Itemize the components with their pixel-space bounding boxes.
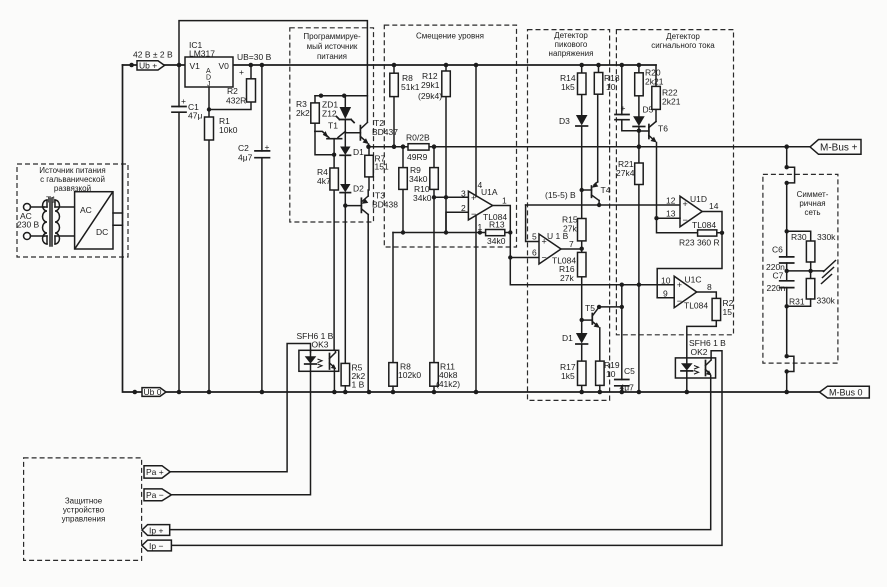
svg-text:1 В: 1 В bbox=[352, 380, 365, 390]
svg-text:TL084: TL084 bbox=[692, 220, 716, 230]
svg-text:Ip +: Ip + bbox=[149, 526, 163, 536]
svg-text:Программируе-: Программируе- bbox=[303, 32, 361, 41]
svg-text:+: + bbox=[542, 237, 547, 247]
svg-text:M-Bus 0: M-Bus 0 bbox=[829, 388, 863, 398]
svg-text:C2: C2 bbox=[238, 143, 249, 153]
svg-text:UB=30 В: UB=30 В bbox=[237, 52, 272, 62]
svg-text:устройство: устройство bbox=[63, 506, 105, 515]
svg-text:V0: V0 bbox=[219, 61, 230, 71]
svg-text:DC: DC bbox=[96, 227, 108, 237]
svg-text:10: 10 bbox=[606, 82, 616, 92]
svg-text:D1: D1 bbox=[353, 147, 364, 157]
svg-text:D1: D1 bbox=[562, 333, 573, 343]
svg-text:R0/2B: R0/2B bbox=[406, 133, 430, 143]
svg-text:T1: T1 bbox=[328, 121, 338, 131]
svg-text:Детектор: Детектор bbox=[666, 32, 700, 41]
svg-text:V1: V1 bbox=[190, 61, 201, 71]
svg-text:432R: 432R bbox=[226, 96, 246, 106]
svg-text:Pa −: Pa − bbox=[146, 490, 164, 500]
svg-text:T4: T4 bbox=[601, 185, 611, 195]
svg-text:U1D: U1D bbox=[690, 194, 707, 204]
svg-text:220n: 220n bbox=[767, 283, 786, 293]
svg-text:C7: C7 bbox=[773, 271, 784, 281]
svg-text:+: + bbox=[621, 103, 626, 113]
svg-text:4k7: 4k7 bbox=[317, 176, 331, 186]
svg-text:+: + bbox=[265, 142, 270, 152]
svg-text:42 В ± 2 В: 42 В ± 2 В bbox=[133, 50, 173, 60]
svg-text:102k0: 102k0 bbox=[398, 370, 421, 380]
svg-text:Защитное: Защитное bbox=[65, 497, 103, 506]
svg-text:Ub +: Ub + bbox=[139, 61, 157, 71]
svg-text:D2: D2 bbox=[353, 184, 364, 194]
svg-text:TL084: TL084 bbox=[684, 301, 708, 311]
svg-text:330k: 330k bbox=[817, 296, 836, 306]
svg-text:3: 3 bbox=[461, 189, 466, 199]
svg-text:R30: R30 bbox=[791, 232, 807, 242]
svg-text:−: − bbox=[677, 296, 682, 306]
svg-text:51k1: 51k1 bbox=[401, 82, 420, 92]
svg-text:C6: C6 bbox=[772, 245, 783, 255]
svg-text:1k5: 1k5 bbox=[561, 371, 575, 381]
svg-text:10k0: 10k0 bbox=[219, 125, 238, 135]
svg-text:R23 360 R: R23 360 R bbox=[679, 238, 720, 248]
svg-text:6: 6 bbox=[532, 248, 537, 258]
svg-text:R31: R31 bbox=[789, 297, 805, 307]
svg-text:+: + bbox=[677, 280, 682, 290]
svg-text:пикового: пикового bbox=[555, 40, 588, 49]
svg-text:12: 12 bbox=[666, 196, 676, 206]
svg-text:2k21: 2k21 bbox=[662, 97, 681, 107]
svg-text:C5: C5 bbox=[624, 366, 635, 376]
svg-text:5: 5 bbox=[532, 232, 537, 242]
svg-text:с гальванической: с гальванической bbox=[40, 175, 105, 184]
svg-text:LM317: LM317 bbox=[189, 49, 215, 59]
svg-text:9: 9 bbox=[663, 289, 668, 299]
svg-text:BD438: BD438 bbox=[372, 200, 398, 210]
svg-text:Ip −: Ip − bbox=[149, 541, 163, 551]
svg-text:2k21: 2k21 bbox=[645, 77, 664, 87]
svg-text:сеть: сеть bbox=[804, 208, 820, 217]
svg-text:сигнального тока: сигнального тока bbox=[651, 41, 715, 50]
svg-text:49R9: 49R9 bbox=[407, 152, 428, 162]
svg-text:ричная: ричная bbox=[799, 199, 825, 208]
svg-text:D3: D3 bbox=[559, 116, 570, 126]
svg-text:Смещение уровня: Смещение уровня bbox=[416, 32, 484, 41]
svg-text:Источник питания: Источник питания bbox=[39, 166, 105, 175]
svg-text:T6: T6 bbox=[658, 124, 668, 134]
svg-text:34k0: 34k0 bbox=[413, 193, 432, 203]
svg-text:27k4: 27k4 bbox=[616, 168, 635, 178]
svg-text:29k1: 29k1 bbox=[421, 80, 440, 90]
svg-text:Z12: Z12 bbox=[322, 109, 337, 119]
svg-text:+: + bbox=[683, 199, 688, 209]
svg-text:27k: 27k bbox=[563, 224, 577, 234]
svg-text:1: 1 bbox=[502, 196, 507, 206]
svg-text:10: 10 bbox=[661, 276, 671, 286]
svg-text:U1C: U1C bbox=[685, 275, 702, 285]
svg-text:−: − bbox=[683, 215, 688, 225]
svg-text:2k2: 2k2 bbox=[296, 108, 310, 118]
svg-text:13: 13 bbox=[666, 209, 676, 219]
svg-text:4μ7: 4μ7 bbox=[238, 153, 253, 163]
svg-text:(29k4): (29k4) bbox=[418, 91, 442, 101]
svg-text:управления: управления bbox=[62, 515, 106, 524]
svg-text:AC: AC bbox=[80, 205, 92, 215]
svg-text:+: + bbox=[239, 67, 244, 77]
svg-text:Детектор: Детектор bbox=[554, 31, 588, 40]
svg-text:−: − bbox=[542, 253, 547, 263]
svg-text:напряжения: напряжения bbox=[549, 49, 594, 58]
svg-text:7: 7 bbox=[569, 239, 574, 249]
svg-text:34k0: 34k0 bbox=[409, 174, 428, 184]
svg-text:47μ: 47μ bbox=[188, 111, 202, 121]
svg-text:Ub 0: Ub 0 bbox=[144, 387, 162, 397]
svg-text:2: 2 bbox=[461, 203, 466, 213]
svg-text:14: 14 bbox=[709, 201, 719, 211]
svg-text:Pa +: Pa + bbox=[146, 467, 164, 477]
svg-text:Симмет-: Симмет- bbox=[797, 190, 829, 199]
svg-text:R2: R2 bbox=[227, 86, 238, 96]
svg-text:27k: 27k bbox=[560, 273, 574, 283]
svg-text:330k: 330k bbox=[817, 232, 836, 242]
svg-text:мый источник: мый источник bbox=[307, 42, 358, 51]
svg-text:8: 8 bbox=[707, 282, 712, 292]
svg-text:U1A: U1A bbox=[481, 187, 498, 197]
svg-text:+: + bbox=[181, 96, 186, 106]
svg-text:(15-5) В: (15-5) В bbox=[545, 190, 576, 200]
svg-text:OK3: OK3 bbox=[312, 340, 329, 350]
svg-text:(41k2): (41k2) bbox=[436, 379, 460, 389]
svg-text:230 В: 230 В bbox=[17, 220, 40, 230]
svg-text:1k5: 1k5 bbox=[561, 82, 575, 92]
svg-text:OK2: OK2 bbox=[691, 347, 708, 357]
svg-text:34k0: 34k0 bbox=[487, 236, 506, 246]
svg-text:T5: T5 bbox=[585, 303, 595, 313]
svg-text:R13: R13 bbox=[489, 220, 505, 230]
svg-text:15: 15 bbox=[723, 307, 733, 317]
svg-text:T1: T1 bbox=[46, 195, 56, 205]
svg-text:10: 10 bbox=[606, 369, 616, 379]
svg-text:питания: питания bbox=[317, 52, 347, 61]
svg-text:M-Bus +: M-Bus + bbox=[820, 143, 858, 154]
svg-text:151: 151 bbox=[375, 162, 389, 172]
